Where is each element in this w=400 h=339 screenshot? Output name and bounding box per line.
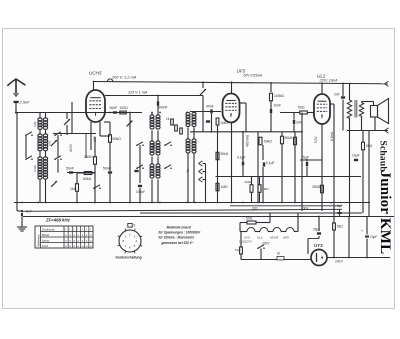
svg-text:9: 9 bbox=[134, 224, 136, 228]
svg-text:10μF: 10μF bbox=[352, 154, 360, 158]
svg-text:50nF: 50nF bbox=[110, 106, 118, 110]
svg-text:60V 0,55mA: 60V 0,55mA bbox=[244, 74, 263, 78]
svg-text:50kΩ: 50kΩ bbox=[221, 152, 229, 156]
svg-text:220V: 220V bbox=[262, 242, 270, 246]
svg-text:+: + bbox=[361, 229, 363, 233]
svg-text:Ta: Ta bbox=[186, 169, 190, 173]
svg-text:5kΩ: 5kΩ bbox=[337, 225, 343, 229]
svg-text:ZF=468 kHz: ZF=468 kHz bbox=[45, 218, 71, 223]
svg-text:+: + bbox=[330, 202, 332, 206]
svg-text:125 V 1 mA: 125 V 1 mA bbox=[128, 91, 148, 95]
svg-text:3nF: 3nF bbox=[296, 121, 302, 125]
svg-text:1kΩ: 1kΩ bbox=[70, 187, 77, 191]
svg-text:1kΩ: 1kΩ bbox=[235, 248, 241, 252]
svg-text:2,5nF: 2,5nF bbox=[19, 100, 31, 105]
svg-text:1MΩ: 1MΩ bbox=[245, 180, 252, 184]
svg-text:8μF: 8μF bbox=[337, 204, 343, 208]
svg-text:UY3: UY3 bbox=[314, 243, 323, 248]
svg-text:Si: Si bbox=[277, 252, 280, 256]
svg-text:Lang: Lang bbox=[42, 238, 49, 242]
svg-text:100V: 100V bbox=[301, 207, 309, 211]
svg-text:100Ω: 100Ω bbox=[120, 106, 129, 110]
svg-text:200 V, 1,2 mA: 200 V, 1,2 mA bbox=[111, 75, 137, 80]
svg-text:250Ω: 250Ω bbox=[312, 185, 321, 189]
svg-text:5nF: 5nF bbox=[26, 210, 32, 214]
svg-text:6,3mA: 6,3mA bbox=[330, 131, 334, 141]
svg-text:465 kHz: 465 kHz bbox=[246, 135, 250, 147]
svg-text:UL2: UL2 bbox=[257, 236, 263, 240]
svg-text:10nF: 10nF bbox=[274, 104, 282, 108]
svg-text:1k: 1k bbox=[166, 117, 170, 121]
svg-text:UCH5: UCH5 bbox=[89, 71, 102, 76]
svg-text:für Ströme : Mavometer: für Ströme : Mavometer bbox=[159, 235, 196, 239]
svg-text:50nF: 50nF bbox=[66, 167, 74, 171]
svg-text:gemessen bei 220 V~: gemessen bei 220 V~ bbox=[161, 241, 194, 245]
svg-text:Gedrückt: Gedrückt bbox=[42, 227, 55, 231]
svg-text:50Ω: 50Ω bbox=[246, 217, 253, 221]
svg-text:Junior KML: Junior KML bbox=[377, 171, 393, 255]
svg-text:7500: 7500 bbox=[152, 143, 156, 150]
svg-text:0,620: 0,620 bbox=[33, 165, 37, 172]
svg-text:5,5V: 5,5V bbox=[314, 136, 318, 143]
svg-text:0,82: 0,82 bbox=[48, 140, 52, 146]
svg-text:Wellenber.: Wellenber. bbox=[36, 234, 40, 247]
svg-text:18V: 18V bbox=[93, 135, 97, 142]
svg-text:Kurz: Kurz bbox=[42, 244, 49, 248]
svg-text:220: 220 bbox=[252, 207, 258, 211]
svg-text:0,1μF: 0,1μF bbox=[266, 161, 275, 165]
svg-text:500nF: 500nF bbox=[158, 106, 168, 110]
svg-text:50Ω: 50Ω bbox=[298, 106, 305, 110]
svg-text:400V: 400V bbox=[69, 143, 73, 152]
svg-text:UF5: UF5 bbox=[283, 236, 289, 240]
svg-text:Mittel: Mittel bbox=[42, 233, 50, 237]
svg-text:1MΩ: 1MΩ bbox=[221, 121, 229, 125]
svg-text:0,1μF: 0,1μF bbox=[237, 156, 246, 160]
svg-text:1MΩ: 1MΩ bbox=[221, 185, 229, 189]
svg-text:40nF: 40nF bbox=[206, 105, 214, 109]
svg-text:Schaub: Schaub bbox=[378, 141, 388, 172]
svg-text:60kΩ: 60kΩ bbox=[83, 177, 92, 181]
svg-text:150Ω: 150Ω bbox=[84, 155, 93, 159]
svg-text:100kΩ: 100kΩ bbox=[274, 94, 284, 98]
svg-text:241V: 241V bbox=[335, 260, 344, 264]
svg-text:0,82: 0,82 bbox=[33, 121, 37, 127]
svg-text:220V, 19mA: 220V, 19mA bbox=[319, 78, 339, 82]
svg-text:50kΩ: 50kΩ bbox=[113, 137, 122, 141]
svg-text:für Spannungen : 10000Ω/V: für Spannungen : 10000Ω/V bbox=[159, 231, 202, 235]
svg-text:10μF: 10μF bbox=[370, 235, 377, 239]
svg-text:Meßinstrument: Meßinstrument bbox=[167, 226, 192, 230]
svg-text:2nF: 2nF bbox=[334, 93, 340, 97]
svg-text:Sockelschaltung: Sockelschaltung bbox=[116, 256, 142, 260]
svg-text:50kΩ: 50kΩ bbox=[264, 140, 272, 144]
svg-text:50kΩ: 50kΩ bbox=[285, 136, 293, 140]
svg-text:UCH5: UCH5 bbox=[270, 236, 278, 240]
